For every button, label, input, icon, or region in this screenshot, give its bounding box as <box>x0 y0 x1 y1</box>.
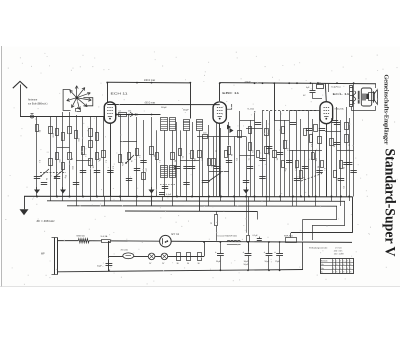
svg-text:+: + <box>243 250 245 254</box>
svg-text:50μF: 50μF <box>265 261 271 263</box>
svg-text:EY 11: EY 11 <box>172 232 180 236</box>
svg-text:2: 2 <box>340 271 341 273</box>
svg-text:4V 0,1A: 4V 0,1A <box>121 249 129 252</box>
svg-text:30: 30 <box>187 263 189 265</box>
svg-text:8: 8 <box>340 268 341 270</box>
svg-text:8: 8 <box>343 264 344 266</box>
svg-text:2: 2 <box>350 261 351 263</box>
svg-text:Betrieb: Betrieb <box>321 260 328 263</box>
svg-text:8k: 8k <box>174 160 176 162</box>
svg-text:2: 2 <box>347 271 348 273</box>
svg-text:+: + <box>264 250 266 254</box>
svg-text:5k: 5k <box>71 158 73 160</box>
svg-text:ECH 11: ECH 11 <box>111 92 128 96</box>
svg-text:5k: 5k <box>342 167 344 169</box>
svg-text:30: 30 <box>177 263 179 265</box>
svg-text:NSF-Wid.: NSF-Wid. <box>284 235 293 237</box>
svg-text:8: 8 <box>347 268 348 270</box>
svg-text:1k: 1k <box>210 222 212 224</box>
svg-text:50μF: 50μF <box>216 261 222 263</box>
svg-text:Gemeinschafts-Empfänger: Gemeinschafts-Empfänger <box>383 75 390 145</box>
svg-text:10k: 10k <box>333 144 335 147</box>
svg-text:0,1μF: 0,1μF <box>253 235 259 237</box>
svg-text:Standard-Super V: Standard-Super V <box>381 149 398 257</box>
svg-text:8: 8 <box>333 268 334 270</box>
svg-text:Ug: Ug <box>321 268 324 270</box>
svg-text:EBF 11: EBF 11 <box>222 91 239 95</box>
svg-text:8: 8 <box>333 261 334 263</box>
svg-text:NSB 500: NSB 500 <box>77 236 86 238</box>
svg-text:560pF: 560pF <box>161 107 167 109</box>
svg-text:≈1,1kΩ: ≈1,1kΩ <box>247 108 254 111</box>
svg-text:2: 2 <box>333 271 334 273</box>
svg-text:240 Ω max: 240 Ω max <box>144 80 156 82</box>
svg-text:2: 2 <box>336 268 337 270</box>
svg-text:50k: 50k <box>98 158 100 161</box>
svg-text:2k: 2k <box>215 150 217 152</box>
svg-text:U ≈ Um: U ≈ Um <box>335 247 342 249</box>
svg-text:560pF: 560pF <box>183 109 189 111</box>
svg-text:25k: 25k <box>193 158 195 161</box>
svg-text:3k: 3k <box>45 178 47 180</box>
svg-text:Antenne: Antenne <box>28 99 38 102</box>
svg-text:3k: 3k <box>348 144 350 146</box>
svg-text:8: 8 <box>347 261 348 263</box>
svg-text:MP: MP <box>41 253 45 256</box>
svg-text:30: 30 <box>198 263 200 265</box>
svg-text:2: 2 <box>333 264 334 266</box>
svg-text:+: + <box>274 250 276 254</box>
svg-text:0,1μF: 0,1μF <box>166 194 172 196</box>
svg-text:ECL 11: ECL 11 <box>333 92 350 96</box>
svg-text:470pF: 470pF <box>245 82 252 84</box>
svg-text:ACh: ACh <box>121 162 124 166</box>
svg-text:110 ≈ 220V: 110 ≈ 220V <box>334 254 345 256</box>
svg-text:50μF: 50μF <box>97 266 103 268</box>
svg-text:50k: 50k <box>268 152 270 155</box>
svg-text:8: 8 <box>336 264 337 266</box>
svg-text:2: 2 <box>340 264 341 266</box>
svg-text:50μF: 50μF <box>244 264 250 266</box>
svg-text:20k: 20k <box>315 158 317 161</box>
svg-text:Si 0,3A: Si 0,3A <box>101 235 108 238</box>
svg-text:ZF = 468 kHz: ZF = 468 kHz <box>37 219 56 223</box>
svg-text:25k: 25k <box>128 111 131 113</box>
svg-text:2: 2 <box>350 268 351 270</box>
svg-text:10k: 10k <box>92 165 94 168</box>
svg-text:2: 2 <box>343 261 344 263</box>
svg-text:zur Erde (Blitzsch.): zur Erde (Blitzsch.) <box>28 102 48 105</box>
svg-text:16μF: 16μF <box>244 261 250 263</box>
svg-text:+: + <box>215 250 217 254</box>
svg-text:≈70Ω,2mA: ≈70Ω,2mA <box>334 108 344 111</box>
svg-text:8: 8 <box>350 271 351 273</box>
svg-text:8: 8 <box>350 264 351 266</box>
svg-text:2: 2 <box>336 261 337 263</box>
svg-text:220 ≈ Um: 220 ≈ Um <box>334 250 343 252</box>
svg-text:Entladungsstrecke: Entladungsstrecke <box>309 247 328 250</box>
svg-text:5k: 5k <box>317 166 319 168</box>
svg-text:25μF: 25μF <box>275 261 281 263</box>
svg-text:1M: 1M <box>153 154 155 157</box>
svg-text:8: 8 <box>336 271 337 273</box>
svg-text:2: 2 <box>347 264 348 266</box>
svg-text:8: 8 <box>340 261 341 263</box>
svg-text:≈0,3μFmax: ≈0,3μFmax <box>331 86 341 88</box>
svg-text:8k: 8k <box>230 154 232 156</box>
svg-text:≈50 Ω max: ≈50 Ω max <box>144 101 156 104</box>
svg-text:2: 2 <box>343 268 344 270</box>
svg-text:1k: 1k <box>130 160 132 162</box>
svg-text:Drossel 90Ω/5H 50Ω: Drossel 90Ω/5H 50Ω <box>218 235 238 238</box>
svg-text:8: 8 <box>343 271 344 273</box>
